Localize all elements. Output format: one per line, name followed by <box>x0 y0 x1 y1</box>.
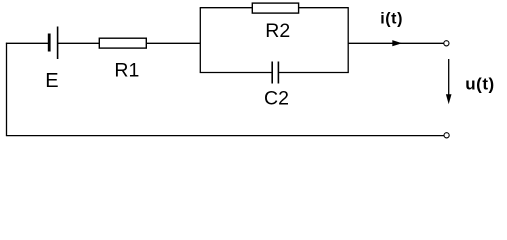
capacitor C2 left plate <box>271 62 273 84</box>
resistor R2 <box>252 3 298 13</box>
arrow u(t) shaft <box>448 59 450 96</box>
wire loop top branch <box>200 7 349 9</box>
wire loop bottom branch right of C2 <box>279 72 349 74</box>
wire left vertical <box>6 43 8 136</box>
wire loop bottom branch left of C2 <box>200 72 272 74</box>
wire loop right vertical <box>347 7 349 72</box>
wire output to terminal <box>348 42 444 44</box>
wire bottom <box>6 135 444 137</box>
arrow u(t) head <box>446 94 452 104</box>
svg-text:E: E <box>45 70 58 92</box>
capacitor C2 right plate <box>277 62 279 84</box>
wire loop left vertical <box>199 8 201 73</box>
terminal node bottom <box>444 133 449 138</box>
battery E thick plate <box>48 34 51 52</box>
resistor R1 <box>99 38 146 48</box>
svg-text:R1: R1 <box>114 60 139 82</box>
svg-text:i(t): i(t) <box>380 11 403 28</box>
wire R1 to parallel group <box>146 42 200 44</box>
arrowhead i(t) <box>392 40 402 46</box>
battery E thin plate <box>57 27 59 60</box>
svg-text:C2: C2 <box>264 88 289 110</box>
wire top segment to battery <box>6 42 49 44</box>
terminal node top <box>444 41 449 46</box>
wire battery to R1 <box>58 42 100 44</box>
svg-text:R2: R2 <box>265 20 290 42</box>
svg-text:u(t): u(t) <box>465 74 495 93</box>
